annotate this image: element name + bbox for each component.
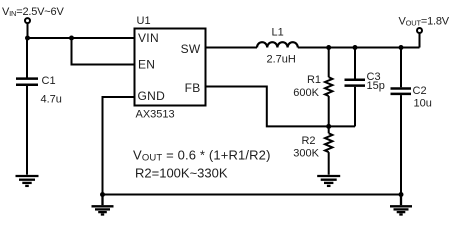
junction rail left: [100, 192, 105, 197]
ground left rail: [92, 195, 114, 215]
wire VIN terminal to junction: [27, 24, 29, 38]
svg-text:L1: L1: [272, 27, 284, 39]
wire VOUT terminal stub: [419, 34, 421, 48]
svg-text:R2: R2: [301, 135, 315, 147]
svg-text:300K: 300K: [293, 148, 319, 160]
C1 value labels: [41, 75, 62, 106]
wire FB pin to divider node: [206, 87, 356, 127]
svg-text:R2=100K~330K: R2=100K~330K: [135, 165, 228, 180]
ground C1: [16, 176, 39, 186]
svg-text:10u: 10u: [414, 98, 432, 110]
svg-text:C1: C1: [42, 75, 56, 87]
wire VIN rail to IC VIN pin: [27, 37, 136, 39]
junction VIN-EN: [69, 36, 74, 41]
terminal VIN: [25, 18, 30, 23]
junction rail right: [399, 192, 404, 197]
junction VIN-C1: [25, 36, 30, 41]
svg-text:R1: R1: [307, 74, 321, 86]
ground R2: [317, 176, 340, 186]
resistor R1: [325, 48, 332, 127]
svg-text:VIN: VIN: [138, 31, 159, 45]
svg-text:C2: C2: [413, 85, 427, 97]
node VIN label: [2, 6, 64, 18]
svg-text:AX3513: AX3513: [136, 109, 175, 121]
wire C1 bottom lead: [26, 86, 28, 175]
svg-text:GND: GND: [138, 89, 166, 103]
wire EN: down then right to EN pin: [72, 38, 136, 65]
op-amp U1 AX3513 box: [135, 29, 206, 106]
svg-text:EN: EN: [138, 58, 155, 72]
resistor R2: [325, 126, 332, 174]
inductor L1: [257, 42, 298, 47]
svg-text:SW: SW: [181, 42, 201, 56]
svg-text:600K: 600K: [293, 87, 319, 99]
junction FB node: [326, 124, 331, 129]
capacitor C1: [16, 79, 38, 85]
wire C1 top lead: [26, 38, 28, 78]
wire bottom ground rail: [103, 194, 402, 196]
svg-text:U1: U1: [137, 15, 151, 27]
wire GND pin to bottom rail: [103, 97, 136, 195]
terminal VOUT: [417, 28, 422, 33]
ground right rail: [390, 195, 412, 215]
svg-text:15p: 15p: [367, 80, 385, 92]
svg-text:2.7uH: 2.7uH: [267, 53, 296, 65]
svg-text:4.7u: 4.7u: [41, 94, 62, 106]
capacitor C2: [391, 48, 412, 195]
junction rail-R1: [326, 45, 331, 50]
wire L1 to VOUT rail: [298, 47, 420, 49]
junction rail-C2: [399, 45, 404, 50]
junction rail-C3: [353, 45, 358, 50]
capacitor C3: [345, 48, 366, 127]
svg-text:FB: FB: [185, 81, 201, 95]
wire SW pin to L1: [206, 47, 258, 49]
